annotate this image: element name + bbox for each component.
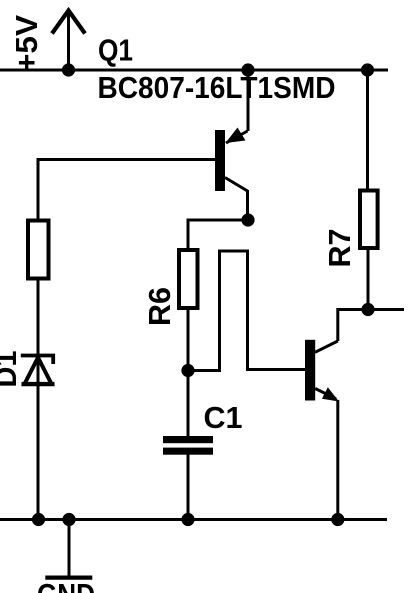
resistor R5 (left, unlabeled) xyxy=(28,221,49,279)
wire collector node to R6 top xyxy=(188,220,248,248)
wire Q1 base xyxy=(38,160,215,219)
diode D1 zener xyxy=(21,356,55,385)
transistor Q2 NPN xyxy=(305,340,339,402)
wire R6 bottom xyxy=(187,310,190,371)
junction R6 / C1 / Q2 base node xyxy=(181,364,194,377)
junction Q1 collector node xyxy=(241,213,254,226)
svg-text:D1: D1 xyxy=(0,350,23,387)
svg-text:Q1: Q1 xyxy=(98,34,133,68)
wire Q1 emitter to +5V rail xyxy=(247,70,250,131)
junction +5V rail / arrow xyxy=(62,63,75,76)
junction bottom rail / Q2 emitter xyxy=(331,513,344,526)
wire node to C1 top xyxy=(187,371,190,437)
svg-text:+5V: +5V xyxy=(10,14,44,72)
junction bottom rail / GND xyxy=(62,513,75,526)
junction bottom rail / C1 xyxy=(181,513,194,526)
wire +5V top rail xyxy=(0,69,388,72)
resistor R6 xyxy=(179,250,198,308)
junction +5V rail / R7 xyxy=(361,63,374,76)
svg-text:C1: C1 xyxy=(204,401,243,435)
svg-text:BC807-16LT1SMD: BC807-16LT1SMD xyxy=(98,71,336,105)
capacitor C1 xyxy=(163,436,213,455)
resistor R7 xyxy=(360,191,378,249)
wire C1 bottom xyxy=(187,455,190,520)
wire GND bottom rail xyxy=(0,518,387,521)
wire Q2 collector to output node xyxy=(338,310,404,342)
svg-text:R7: R7 xyxy=(323,229,357,268)
wire R7 bottom xyxy=(367,250,370,310)
junction +5V rail / Q1 emitter xyxy=(241,63,254,76)
wire node to Q2 base (routed loop) xyxy=(188,251,305,371)
wire R7 top xyxy=(366,70,369,189)
wire Q2 emitter to bottom rail xyxy=(336,400,339,520)
svg-text:GND: GND xyxy=(37,578,95,593)
svg-text:R6: R6 xyxy=(143,287,177,326)
junction output node xyxy=(361,303,374,316)
transistor Q1 PNP xyxy=(215,128,248,192)
+5V power arrow symbol xyxy=(52,11,85,71)
wire Q1 collector xyxy=(246,190,249,214)
ground symbol xyxy=(37,520,95,593)
junction bottom rail / D1 xyxy=(32,513,45,526)
wire left branch through D1 to bottom rail xyxy=(37,281,40,520)
